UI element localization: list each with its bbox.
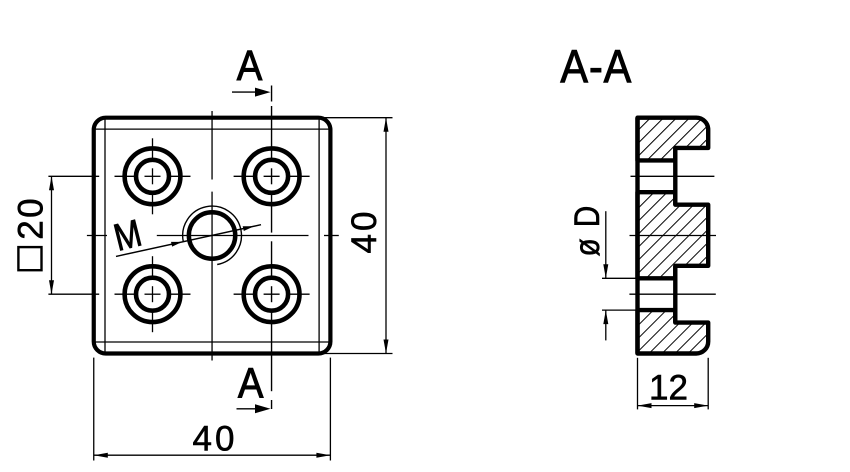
vertical centerline xyxy=(211,111,213,180)
M leader arrow on thread xyxy=(171,242,182,247)
hole row centerline top xyxy=(115,175,138,177)
section centerlines xyxy=(631,175,715,177)
dim 12 ext lines xyxy=(637,358,639,410)
hole bottom-right bore xyxy=(255,278,288,311)
dim 40 bottom line xyxy=(94,454,331,456)
counterbore step top hole xyxy=(673,148,677,205)
square symbol xyxy=(18,247,41,270)
section arrow bottom xyxy=(237,408,259,410)
section arrow top xyxy=(232,91,258,93)
dim 40 right line xyxy=(385,118,387,354)
dim oD line xyxy=(605,211,607,278)
hole row centerline bottom xyxy=(115,293,138,295)
thread arc xyxy=(183,206,242,264)
plate outline xyxy=(94,118,331,354)
dim 40 right ext lines xyxy=(319,117,393,119)
svg-text:A-A: A-A xyxy=(560,41,632,93)
section cut line A-A xyxy=(271,86,273,102)
svg-text:40: 40 xyxy=(193,420,238,459)
svg-text:12: 12 xyxy=(649,369,688,408)
left hole column centerline xyxy=(152,138,154,160)
dim oD ext lines xyxy=(602,277,638,279)
dim sq20 ext lines xyxy=(48,175,99,177)
svg-text:20: 20 xyxy=(12,196,51,240)
plate edge tangent lines xyxy=(104,118,106,354)
dim 12 line xyxy=(638,405,709,407)
center hole xyxy=(189,212,235,258)
counterbore step bottom hole xyxy=(673,266,677,323)
horizontal centerline xyxy=(87,235,107,237)
dim 40 bottom ext lines xyxy=(93,358,95,461)
hole top-right counterbore xyxy=(244,148,300,204)
section band top xyxy=(638,118,709,161)
hole bottom-left bore xyxy=(136,278,169,311)
hole top-right bore xyxy=(255,160,288,193)
section left edge xyxy=(635,118,639,354)
section band middle xyxy=(638,192,709,278)
svg-text:A: A xyxy=(237,41,263,90)
M leader arrow outer xyxy=(243,226,254,231)
svg-text:40: 40 xyxy=(345,209,384,254)
hole bottom-right counterbore xyxy=(244,266,300,322)
dim sq20 line xyxy=(51,176,53,294)
section band bottom xyxy=(638,310,709,353)
M leader line xyxy=(116,225,261,257)
svg-text:A: A xyxy=(238,358,264,407)
hole top-left counterbore xyxy=(125,148,181,204)
hole top-left bore xyxy=(136,160,169,193)
hole bottom-left counterbore xyxy=(125,266,181,322)
